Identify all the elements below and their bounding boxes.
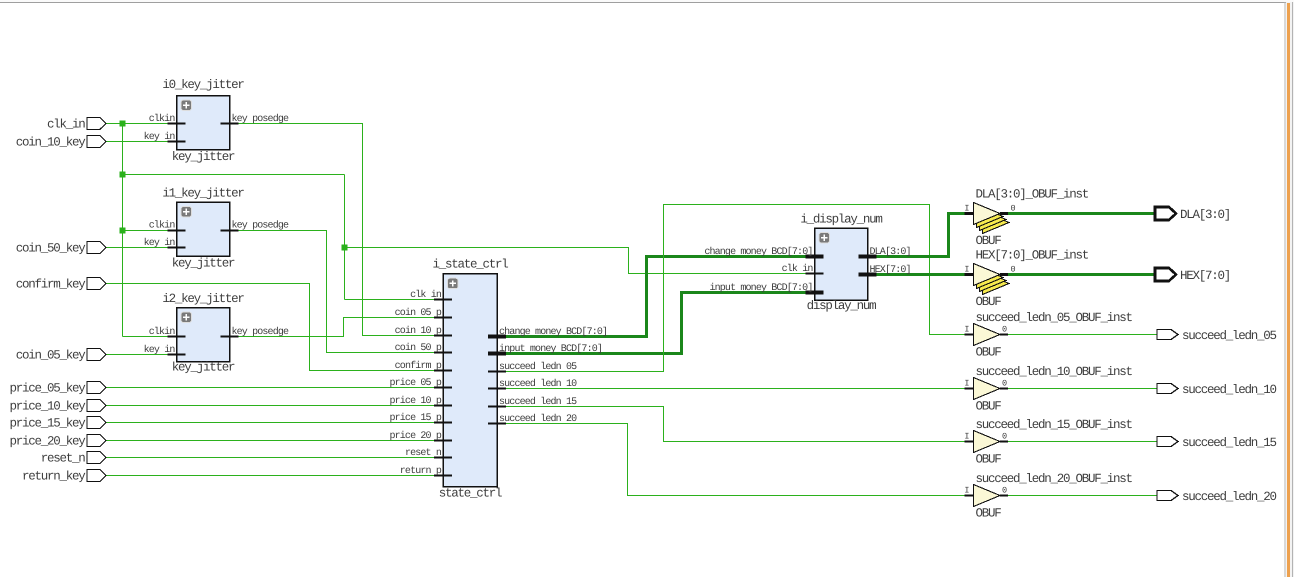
bus change_money_BCD[7:0] state_ctrl to display_num [506,257,806,337]
svg-text:0: 0 [1011,265,1016,275]
svg-text:succeed ledn 10: succeed ledn 10 [499,378,577,390]
output port succeed_ledn_15 [1157,436,1277,450]
svg-text:succeed_ledn_05_OBUF_inst: succeed_ledn_05_OBUF_inst [976,311,1133,325]
pin state_ctrl coin_05_p [395,307,452,319]
svg-text:succeed ledn 15: succeed ledn 15 [499,396,577,408]
net reset_n to state_ctrl [106,457,434,459]
net succeed_ledn_20 OBUF output to port [1008,495,1157,497]
net i0 key_posedge to state_ctrl coin_10_p [239,124,435,336]
output port HEX[7:0] [1155,268,1230,283]
net clk_in: port to i0_key_jitter clkin [106,123,168,125]
net clk_in: branch to i1 clkin [123,230,168,232]
svg-text:I: I [964,486,969,496]
input port confirm_key [16,278,106,292]
net price_05_key to state_ctrl [106,387,434,389]
svg-text:price 05 p: price 05 p [389,377,441,389]
pin i0 key_posedge [221,113,290,125]
svg-text:succeed_ledn_10_OBUF_inst: succeed_ledn_10_OBUF_inst [976,365,1133,379]
net coin_10_key: port to i0 key_in [106,141,168,143]
pin display_num input_money_BCD[7:0] [709,282,823,294]
pin i1 key_in [144,237,186,249]
net confirm_key: port to state_ctrl confirm_p [106,284,434,371]
svg-text:0: 0 [1002,325,1007,335]
net succeed_ledn_10 OBUF output to port [1008,388,1157,390]
pin i1 clkin [149,220,186,232]
svg-text:input money BCD[7:0]: input money BCD[7:0] [709,282,812,294]
svg-text:key in: key in [144,131,176,143]
net coin_50_key: port to i1 key_in [106,247,168,249]
buffer succeed_ledn_10_OBUF_inst [964,365,1132,414]
junction clk_in at y=174.3 [120,172,126,178]
svg-text:price_15_key: price_15_key [9,417,86,431]
svg-text:I: I [964,379,969,389]
net succeed_ledn_05 OBUF output to port [1008,334,1157,336]
svg-text:0: 0 [1002,379,1007,389]
input port reset_n [41,452,106,466]
input port return_key [22,470,106,484]
svg-text:key_jitter: key_jitter [172,150,235,164]
buffer HEX[7:0]_OBUF_inst [964,249,1088,310]
svg-text:price_10_key: price_10_key [9,400,86,414]
svg-text:clkin: clkin [149,326,176,338]
svg-text:DLA[3:0]_OBUF_inst: DLA[3:0]_OBUF_inst [976,188,1089,202]
pin state_ctrl price_20_p [389,430,452,442]
svg-text:price 15 p: price 15 p [389,412,441,424]
input port coin_10_key [16,136,106,150]
pin state_ctrl succeed_ledn_20 [488,413,577,425]
svg-text:OBUF: OBUF [976,346,1002,360]
input port clk_in [47,118,106,132]
junction clk_in at clk_in port row [120,121,126,127]
input port price_15_key [9,417,106,431]
net succeed_ledn_10 state_ctrl to OBUF [506,388,965,390]
svg-text:coin 05 p: coin 05 p [395,307,442,319]
module i0_key_jitter [162,78,244,164]
svg-text:clkin: clkin [149,113,176,125]
svg-text:key in: key in [144,344,176,356]
junction clk_in at i1 clkin row [120,228,126,234]
net i2 key_posedge to state_ctrl coin_05_p [239,318,435,337]
svg-text:OBUF: OBUF [976,234,1002,248]
svg-text:succeed_ledn_10: succeed_ledn_10 [1182,383,1277,397]
net clk_in: vertical x=344.4 down to state_ctrl [344,175,346,300]
buffer succeed_ledn_05_OBUF_inst [964,311,1132,360]
bus DLA OBUF output to port [1008,212,1155,215]
pin state_ctrl input_money_BCD[7:0] [488,343,602,355]
svg-text:coin 50 p: coin 50 p [395,342,442,354]
pin i2 key_posedge [221,326,290,338]
pin i1 key_posedge [221,220,290,232]
svg-text:confirm p: confirm p [395,360,442,372]
svg-text:0: 0 [1002,432,1007,442]
net clk_in: branch to i2 clkin [123,336,168,338]
pin state_ctrl price_10_p [389,395,452,407]
svg-text:OBUF: OBUF [976,507,1002,521]
svg-text:state_ctrl: state_ctrl [439,487,502,501]
svg-text:key in: key in [144,237,176,249]
svg-text:change money BCD[7:0]: change money BCD[7:0] [704,246,812,258]
net succeed_ledn_05 state_ctrl to OBUF [506,205,965,372]
net clk_in: into state_ctrl clk_in pin [345,299,435,301]
svg-text:i_display_num: i_display_num [800,213,882,227]
svg-text:i0_key_jitter: i0_key_jitter [162,78,244,92]
buffer succeed_ledn_20_OBUF_inst [964,472,1132,521]
svg-text:succeed ledn 05: succeed ledn 05 [499,361,577,373]
net price_20_key to state_ctrl [106,440,434,442]
svg-text:price 20 p: price 20 p [389,430,441,442]
pin state_ctrl reset_n [405,448,452,459]
pin state_ctrl price_05_p [389,377,452,389]
svg-text:HEX[7:0]_OBUF_inst: HEX[7:0]_OBUF_inst [976,249,1089,263]
pin state_ctrl coin_50_p [395,342,452,354]
output port succeed_ledn_20 [1157,490,1277,504]
input port coin_50_key [16,242,106,256]
output port succeed_ledn_10 [1157,383,1277,397]
pin state_ctrl succeed_ledn_10 [488,378,577,390]
svg-text:OBUF: OBUF [976,453,1002,467]
svg-text:I: I [964,204,969,214]
svg-text:HEX[7:0]: HEX[7:0] [1180,269,1230,283]
svg-text:succeed_ledn_05: succeed_ledn_05 [1182,329,1277,343]
svg-text:return p: return p [400,466,442,477]
pin state_ctrl succeed_ledn_05 [488,361,577,373]
pin i2 clkin [149,326,186,338]
svg-text:price_05_key: price_05_key [9,382,86,396]
pin state_ctrl clk_in [410,289,452,301]
net succeed_ledn_15 state_ctrl to OBUF [506,407,965,442]
net clk_in: vertical trunk x=122.4 [122,124,124,337]
bus HEX OBUF output to port [1008,273,1155,276]
svg-text:DLA[3:0]: DLA[3:0] [870,246,911,258]
pin display_num clk_in [782,263,824,275]
svg-text:0: 0 [1011,204,1016,214]
input port price_20_key [9,435,106,449]
net succeed_ledn_15 OBUF output to port [1008,441,1157,443]
pin state_ctrl succeed_ledn_15 [488,396,577,408]
pin i0 key_in [144,131,186,143]
net succeed_ledn_20 state_ctrl to OBUF [506,424,965,496]
svg-text:succeed_ledn_20: succeed_ledn_20 [1182,490,1277,504]
svg-text:succeed_ledn_15_OBUF_inst: succeed_ledn_15_OBUF_inst [976,418,1133,432]
bus DLA display_num to OBUF [877,214,965,257]
svg-text:succeed_ledn_15: succeed_ledn_15 [1182,436,1277,450]
pin i0 clkin [149,113,186,125]
svg-text:price_20_key: price_20_key [9,435,86,449]
input port coin_05_key [16,349,106,363]
module i_state_ctrl [432,258,508,501]
junction clk_in at y=247.3 [342,245,348,251]
net clk_in: branch y=174.3 toward state/display [123,174,345,176]
buffer DLA[3:0]_OBUF_inst [964,188,1088,249]
pin display_num change_money_BCD[7:0] [704,246,823,258]
module i2_key_jitter [162,292,244,375]
pin state_ctrl change_money_BCD[7:0] [488,326,607,338]
svg-text:input money BCD[7:0]: input money BCD[7:0] [499,343,602,355]
net price_10_key to state_ctrl [106,405,434,407]
svg-text:coin_05_key: coin_05_key [16,349,87,363]
bus input_money_BCD[7:0] state_ctrl to display_num [506,293,806,354]
pin display_num DLA[3:0] [859,246,911,258]
svg-text:I: I [964,432,969,442]
bus HEX display_num to OBUF [877,273,965,276]
svg-text:i2_key_jitter: i2_key_jitter [162,292,244,306]
net coin_05_key: port to i2 key_in [106,354,168,356]
svg-text:confirm_key: confirm_key [16,278,87,292]
svg-text:clkin: clkin [149,220,176,232]
module i1_key_jitter [162,187,244,271]
svg-text:i1_key_jitter: i1_key_jitter [162,187,244,201]
output port DLA[3:0] [1155,207,1230,222]
svg-text:OBUF: OBUF [976,295,1002,309]
svg-text:0: 0 [1002,486,1007,496]
svg-text:HEX[7:0]: HEX[7:0] [870,264,911,276]
svg-text:key posedge: key posedge [232,326,290,338]
svg-text:display_num: display_num [807,299,877,313]
svg-text:succeed_ledn_20_OBUF_inst: succeed_ledn_20_OBUF_inst [976,472,1133,486]
svg-text:clk in: clk in [782,263,814,275]
svg-text:OBUF: OBUF [976,400,1002,414]
input port price_10_key [9,400,106,414]
output port succeed_ledn_05 [1157,329,1277,343]
net return_key to state_ctrl [106,475,434,477]
net clk_in: branch y=247.3 to display_num [345,248,807,274]
svg-text:return_key: return_key [22,470,86,484]
pin state_ctrl return_p [400,466,452,477]
svg-text:coin_10_key: coin_10_key [16,136,87,150]
svg-text:key_jitter: key_jitter [172,257,235,271]
svg-text:coin 10 p: coin 10 p [395,325,442,337]
module i_display_num [800,213,882,314]
svg-text:key posedge: key posedge [232,220,290,232]
svg-text:DLA[3:0]: DLA[3:0] [1180,208,1230,222]
pin state_ctrl confirm_p [395,360,452,372]
svg-text:reset_n: reset_n [41,452,86,466]
svg-text:reset n: reset n [405,448,442,459]
svg-text:I: I [964,325,969,335]
svg-text:key posedge: key posedge [232,113,290,125]
svg-text:change money BCD[7:0]: change money BCD[7:0] [499,326,607,338]
input port price_05_key [9,382,106,396]
svg-text:clk in: clk in [410,289,442,301]
pin state_ctrl coin_10_p [395,325,452,337]
svg-text:key_jitter: key_jitter [172,361,235,375]
buffer succeed_ledn_15_OBUF_inst [964,418,1132,467]
pin i2 key_in [144,344,186,356]
svg-text:price 10 p: price 10 p [389,395,441,407]
pin display_num HEX[7:0] [859,264,911,276]
svg-text:i_state_ctrl: i_state_ctrl [432,258,508,272]
svg-text:clk_in: clk_in [47,118,85,132]
svg-text:succeed ledn 20: succeed ledn 20 [499,413,577,425]
net i1 key_posedge to state_ctrl coin_50_p [239,231,435,353]
svg-text:I: I [964,265,969,275]
pin state_ctrl price_15_p [389,412,452,424]
net price_15_key to state_ctrl [106,422,434,424]
svg-text:coin_50_key: coin_50_key [16,242,87,256]
